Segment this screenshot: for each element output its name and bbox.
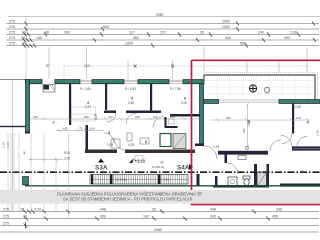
left wall end cap xyxy=(25,132,30,134)
roof line tick marks xyxy=(134,65,175,68)
svg-text:260: 260 xyxy=(284,36,290,40)
hallway wall horizontal A xyxy=(104,111,116,114)
terrace plant fixture 1 xyxy=(249,85,256,92)
svg-text:1000: 1000 xyxy=(222,25,230,29)
svg-text:45: 45 xyxy=(22,42,26,46)
svg-text:275: 275 xyxy=(9,25,15,29)
interior dimension row right wing xyxy=(210,118,310,122)
svg-text:360: 360 xyxy=(133,36,139,40)
svg-text:275: 275 xyxy=(9,36,15,40)
svg-text:2,05: 2,05 xyxy=(94,114,98,120)
svg-text:110: 110 xyxy=(108,115,113,119)
gray annotation band xyxy=(0,190,320,204)
top wall segment W8 teal corner xyxy=(183,80,204,84)
red boundary line bottom xyxy=(192,204,320,206)
railing gray line xyxy=(219,100,279,102)
svg-text:SA ŠEST (6) STAMBENIH JEDINICA: SA ŠEST (6) STAMBENIH JEDINICA - PO PRIS… xyxy=(63,197,192,202)
terrace dotted frame right xyxy=(317,73,319,99)
svg-text:117: 117 xyxy=(129,31,135,35)
dim line B2 xyxy=(0,218,319,220)
svg-text:2,97: 2,97 xyxy=(85,105,91,109)
bottom dimension strip xyxy=(0,212,319,233)
svg-text:275: 275 xyxy=(3,215,9,219)
extension lines from top dims down xyxy=(13,47,308,211)
wall room4/5 vertical xyxy=(69,84,71,125)
svg-text:P= 5,40: P= 5,40 xyxy=(125,87,136,91)
center vertical wall teal (S3A/S4A separation) xyxy=(200,84,204,144)
+2,10 level mark xyxy=(129,158,134,163)
top wall dark outline xyxy=(26,80,205,92)
svg-text:4,10: 4,10 xyxy=(34,208,41,212)
svg-text:142: 142 xyxy=(143,215,149,219)
svg-text:3,00: 3,00 xyxy=(181,101,187,105)
svg-text:400: 400 xyxy=(33,115,38,119)
dim line B1 xyxy=(0,211,319,213)
terrace plant fixture 2 xyxy=(264,87,269,92)
svg-text:P= 3,60: P= 3,60 xyxy=(80,87,91,91)
svg-text:3,05: 3,05 xyxy=(247,120,251,126)
svg-text:2,04: 2,04 xyxy=(89,127,95,131)
svg-text:5,00: 5,00 xyxy=(64,151,70,155)
wall left room vertical xyxy=(86,125,89,153)
wall room5/6 vertical xyxy=(105,84,107,110)
svg-text:45: 45 xyxy=(21,36,25,40)
svg-text:S4A: S4A xyxy=(177,165,190,172)
bath bottom wall xyxy=(213,185,269,188)
toilet xyxy=(243,176,250,179)
extension lines bottom left xyxy=(8,133,69,218)
terrace tile grid xyxy=(205,76,314,99)
svg-text:296: 296 xyxy=(135,115,140,119)
green ground line xyxy=(25,185,320,187)
extension line building left corner xyxy=(25,17,27,79)
terrace dotted frame top xyxy=(204,72,316,74)
right lower teal bar xyxy=(292,146,320,150)
svg-text:600: 600 xyxy=(103,25,109,29)
kitchen fixtures row xyxy=(111,139,120,148)
svg-text:88: 88 xyxy=(45,31,49,35)
svg-text:448: 448 xyxy=(210,208,216,212)
svg-text:2,60: 2,60 xyxy=(290,31,297,35)
top wall segment W2 teal xyxy=(55,80,80,84)
svg-text:P=105,20: P=105,20 xyxy=(152,165,164,169)
S4A interior: thick wall bottom left part xyxy=(218,151,268,155)
bath wall vertical 2 xyxy=(267,164,270,187)
svg-text:1,93: 1,93 xyxy=(213,145,219,149)
hallway wall horizontal B xyxy=(126,111,161,114)
window W7 xyxy=(169,80,183,83)
svg-text:305: 305 xyxy=(242,128,246,133)
svg-text:4,05: 4,05 xyxy=(128,143,134,147)
top wall segment W1 teal xyxy=(26,80,43,84)
door arc room 4 right xyxy=(282,134,292,144)
svg-text:1,40: 1,40 xyxy=(316,130,320,136)
wall cap S4A xyxy=(195,144,204,147)
svg-text:140: 140 xyxy=(36,36,42,40)
svg-text:2,60: 2,60 xyxy=(295,105,301,109)
WC partition xyxy=(165,117,167,128)
window W5 xyxy=(124,80,138,83)
tick marks top xyxy=(23,22,317,48)
svg-text:343: 343 xyxy=(210,215,216,219)
small dim text above wall xyxy=(46,64,90,68)
svg-text:4,05: 4,05 xyxy=(62,127,68,131)
S4A hallway wall vertical xyxy=(225,151,228,163)
red boundary line vertical xyxy=(191,60,193,205)
teal pillar left xyxy=(23,177,29,185)
ground reference line left of building xyxy=(0,79,26,81)
roof overhang dashed line vertical xyxy=(63,66,65,79)
svg-text:240: 240 xyxy=(258,31,264,35)
svg-text:560: 560 xyxy=(240,42,246,46)
small table xyxy=(135,156,143,161)
svg-text:SP: SP xyxy=(160,161,164,165)
washbasin xyxy=(228,177,237,186)
svg-text:12 34: 12 34 xyxy=(163,178,170,182)
svg-text:2,60: 2,60 xyxy=(128,101,134,105)
cabinet above wall xyxy=(238,156,246,160)
dim row left lower xyxy=(28,158,63,161)
svg-text:465: 465 xyxy=(226,116,231,120)
svg-text:300: 300 xyxy=(64,31,70,35)
terrace parapet L horizontal teal xyxy=(204,100,219,104)
top wall segment W6 teal xyxy=(138,80,169,84)
svg-text:80: 80 xyxy=(22,31,26,35)
svg-text:S3A: S3A xyxy=(95,165,108,172)
left exterior wall teal xyxy=(26,80,30,133)
svg-text:1,40: 1,40 xyxy=(6,142,10,148)
window W3 xyxy=(80,80,92,83)
door arc right lower xyxy=(270,140,281,151)
bath left wall xyxy=(215,176,218,186)
dim line T5 xyxy=(6,45,319,47)
vertical dim line S4A xyxy=(246,103,249,150)
right lower wall band xyxy=(280,184,320,187)
party wall stub at entry xyxy=(197,174,200,187)
stairs gray box xyxy=(257,172,267,187)
roof overhang dashed line horizontal xyxy=(64,65,309,67)
svg-text:140: 140 xyxy=(296,116,301,120)
small area texts xyxy=(64,87,301,161)
svg-text:3,00: 3,00 xyxy=(64,157,70,161)
svg-text:275: 275 xyxy=(3,222,9,226)
svg-text:296: 296 xyxy=(84,115,89,119)
svg-text:448: 448 xyxy=(100,208,106,212)
red boundary line top xyxy=(192,59,320,61)
svg-text:540: 540 xyxy=(225,36,231,40)
svg-text:450: 450 xyxy=(272,215,278,219)
dim line T3 xyxy=(6,34,319,36)
svg-text:275: 275 xyxy=(3,208,9,212)
svg-text:35: 35 xyxy=(152,208,156,212)
svg-text:75: 75 xyxy=(79,127,83,131)
svg-text:35: 35 xyxy=(200,31,204,35)
dim row under room 4 xyxy=(56,129,104,133)
hallway wall horizontal C xyxy=(170,114,200,117)
wall room6/7 vertical xyxy=(150,84,152,113)
svg-text:275: 275 xyxy=(9,31,15,35)
ceiling lamp circle xyxy=(245,146,249,150)
svg-text:2980: 2980 xyxy=(156,13,164,17)
svg-text:1,93: 1,93 xyxy=(107,143,113,147)
svg-text:1000: 1000 xyxy=(222,20,230,24)
svg-text:340: 340 xyxy=(276,208,282,212)
stairs hatch band xyxy=(90,175,188,185)
wardrobe room 4 xyxy=(72,107,96,121)
dim line T0 overall xyxy=(8,16,320,18)
green fridge box xyxy=(160,134,171,147)
svg-text:12 34 56: 12 34 56 xyxy=(116,178,127,182)
S4A entry door arc xyxy=(204,146,217,159)
svg-text:157: 157 xyxy=(160,31,166,35)
gray shower box kitchen xyxy=(173,134,186,149)
svg-text:450: 450 xyxy=(100,215,106,219)
dim line T2 xyxy=(6,28,319,30)
door arcs hallway xyxy=(107,113,116,122)
bath wall vertical 1 xyxy=(254,164,257,187)
terrace top edge xyxy=(204,75,315,100)
svg-text:P= 7,80: P= 7,80 xyxy=(170,87,181,91)
top wall segment W4 teal xyxy=(92,80,124,84)
svg-text:15: 15 xyxy=(20,208,24,212)
dim line T4 xyxy=(6,39,319,41)
svg-text:2980: 2980 xyxy=(154,228,162,232)
entry door opening hatch box xyxy=(43,85,55,93)
svg-text:+2,10: +2,10 xyxy=(135,159,146,164)
svg-text:160: 160 xyxy=(170,115,175,119)
svg-text:97: 97 xyxy=(46,64,50,68)
svg-text:90: 90 xyxy=(23,215,27,219)
right top teal wall bar xyxy=(279,100,320,104)
left neighbour wall stub xyxy=(0,126,26,127)
dim line B3 xyxy=(0,225,319,227)
dim line B4 xyxy=(0,231,319,233)
svg-text:275: 275 xyxy=(9,20,15,24)
interior dimension row left wing xyxy=(30,117,199,121)
svg-text:275: 275 xyxy=(9,42,15,46)
top labels 275 column xyxy=(9,20,297,46)
svg-text:1000: 1000 xyxy=(125,42,133,46)
S4A door arc xyxy=(227,163,238,174)
svg-text:1,50: 1,50 xyxy=(2,142,6,148)
svg-text:110: 110 xyxy=(153,115,158,119)
right room divider wall vertical xyxy=(292,104,294,134)
property dash-dot line xyxy=(0,171,320,173)
dim line T1 xyxy=(6,23,319,25)
room number labels xyxy=(23,96,310,175)
south wall S3A unit xyxy=(85,150,117,154)
